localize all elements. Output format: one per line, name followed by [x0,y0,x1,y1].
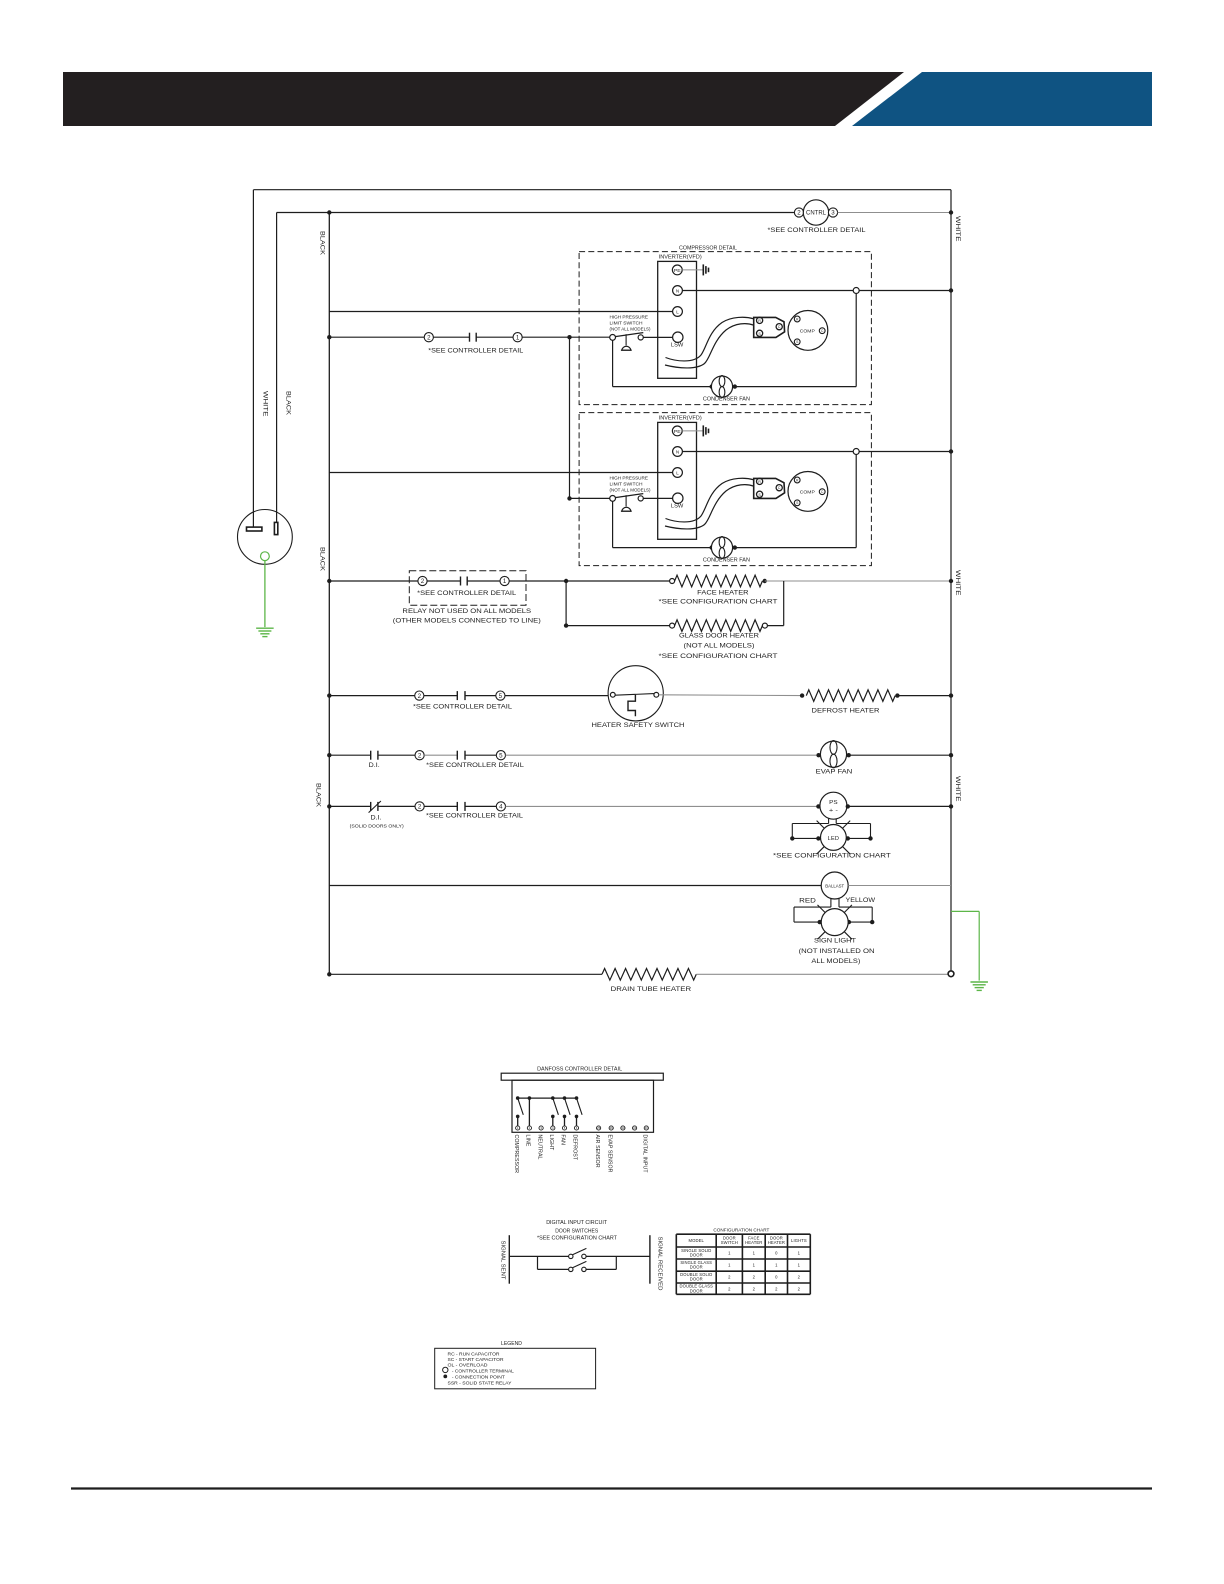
controller pin 2 [527,1126,531,1130]
compressor COMP [788,472,828,512]
svg-text:CONFIGURATION CHART: CONFIGURATION CHART [713,1228,769,1233]
svg-text:25: 25 [597,1126,601,1130]
branch down to door switch 2 [537,1256,539,1269]
wire switch to LSW [643,336,672,338]
controller contact (compressor relay) [469,333,471,342]
sign light rays [817,905,825,913]
pin stub [517,1116,519,1125]
legend box [435,1348,596,1389]
door switch 2 right contact [582,1267,586,1271]
svg-text:HEATER: HEATER [768,1240,785,1245]
PS output leads [828,818,830,823]
header black band [63,72,904,126]
wire [433,336,469,338]
svg-text:WHITE: WHITE [261,391,268,417]
svg-text:2: 2 [421,578,425,585]
wire PS to white bus [848,805,951,807]
svg-text:BLACK: BLACK [315,783,322,808]
wire to heater safety switch [505,695,610,697]
relay blade [518,1098,524,1115]
header blue band [852,72,1152,126]
junction riser to inverter 2 [567,335,571,339]
wire switch to condenser fan (down) [612,340,614,386]
door switch 1 right contact [582,1254,586,1258]
COMP terminal C [819,328,825,334]
junction white bus / defrost [949,693,953,697]
cable inverter to compressor plug (upper outline) [666,317,754,361]
svg-text:COMPRESSOR DETAIL: COMPRESSOR DETAIL [679,246,737,252]
COMP terminal S [794,500,800,506]
svg-text:DIGITAL INPUT: DIGITAL INPUT [642,1135,648,1174]
riser fan to N connection point [855,294,857,387]
svg-text:1: 1 [503,578,507,585]
connection point (N / fan) [853,288,859,294]
svg-text:LIGHT: LIGHT [548,1135,554,1152]
pin stub [552,1116,554,1125]
wire terminal 4 to power supply [506,805,819,807]
bus node [528,1096,532,1100]
wire to condenser fan [613,386,712,388]
svg-text:HIGH PRESSURE: HIGH PRESSURE [610,314,649,319]
svg-text:1: 1 [516,334,520,341]
chassis ground symbol [702,425,704,436]
junction condenser fan right [733,545,737,549]
controller terminal 2 (CNTRL) [794,208,803,217]
door switch 1 blade [573,1248,587,1254]
plug terminal R [757,317,763,323]
cable inverter to compressor plug (upper outline) [666,478,754,522]
resistor GLASS DOOR HEATER [675,620,763,632]
safety switch bimetal step [628,695,635,716]
svg-text:CONDENSER FAN: CONDENSER FAN [703,396,750,402]
LED harness rails [792,823,828,825]
wire black bus to ballast [329,885,821,887]
legend connection point symbol [443,1375,447,1379]
svg-text:*SEE CONFIGURATION CHART: *SEE CONFIGURATION CHART [659,599,778,605]
junction PS left [816,804,820,808]
earth ground (right) [970,981,988,983]
svg-text:5: 5 [499,752,503,759]
svg-text:L: L [676,310,679,315]
inverter terminal N [673,286,683,296]
svg-text:OL - OVERLOAD: OL - OVERLOAD [448,1362,488,1368]
svg-text:*SEE CONFIGURATION CHART: *SEE CONFIGURATION CHART [773,854,891,860]
earth ground (plug) [256,627,274,629]
condenser fan motor [711,376,732,397]
high pressure limit switch [610,496,616,502]
COMP terminal C [819,489,825,495]
wire terminal 1 to limit switch [522,336,610,338]
svg-text:- CONNECTION POINT: - CONNECTION POINT [452,1374,505,1380]
svg-text:CONDENSER FAN: CONDENSER FAN [703,557,750,563]
riser to second limit switch row [569,337,571,498]
wire rail to LED left [792,837,818,839]
svg-text:SWITCH: SWITCH [721,1240,738,1245]
svg-text:DI: DI [645,1126,648,1130]
svg-text:PE: PE [674,429,681,434]
wire bus to N.C. contact [329,805,370,807]
wire CNTRL to white bus [838,212,951,214]
svg-text:(OTHER MODELS CONNECTED TO LIN: (OTHER MODELS CONNECTED TO LINE) [393,619,541,625]
controller terminal 3 (CNTRL) [828,208,837,217]
svg-text:SIGNAL RECEIVED: SIGNAL RECEIVED [656,1237,662,1291]
svg-text:R: R [758,480,761,484]
svg-text:DOOR: DOOR [690,1253,703,1258]
relay terminal 2 [418,576,427,585]
relay blade [565,1098,571,1115]
contact D.I. solid doors (N.C.) [370,802,372,811]
plug terminal S [757,330,763,336]
svg-text:FACE HEATER: FACE HEATER [697,590,749,596]
junction black bus / defrost row [327,693,331,697]
wire [465,695,496,697]
svg-text:*SEE CONFIGURATION CHART: *SEE CONFIGURATION CHART [659,654,778,660]
inverter terminal PE [672,426,682,436]
junction black bus / contact row 1 [327,335,331,339]
svg-text:BALLAST: BALLAST [825,884,844,889]
bus node [551,1096,555,1100]
wire PE to chassis ground [682,430,702,432]
svg-text:(NOT INSTALLED ON: (NOT INSTALLED ON [799,949,875,955]
junction LED right lead [846,836,850,840]
limit switch pressure dome [622,346,631,350]
svg-text:LIMIT SWITCH: LIMIT SWITCH [610,481,643,486]
safety switch left contact [610,692,615,697]
svg-text:SIGNAL SENT: SIGNAL SENT [500,1241,506,1280]
svg-text:BLACK: BLACK [319,231,326,256]
svg-text:DOOR: DOOR [690,1265,703,1270]
controller pin 4 [551,1126,555,1130]
wire [378,805,415,807]
controller terminal 4 (light) [496,802,505,811]
svg-text:ALL MODELS): ALL MODELS) [811,959,860,965]
svg-text:2: 2 [418,804,422,811]
svg-text:*SEE CONTROLLER DETAIL: *SEE CONTROLLER DETAIL [428,348,524,354]
pin stub [564,1116,566,1125]
svg-text:*SEE CONTROLLER DETAIL: *SEE CONTROLLER DETAIL [426,763,525,769]
signal received bar [649,1235,651,1284]
white neutral bus (right) [950,190,952,974]
wire condenser fan to riser [735,547,856,549]
svg-text:HEATER SAFETY SWITCH: HEATER SAFETY SWITCH [592,723,685,729]
controller terminal 2 (compressor) [424,333,433,342]
wire terminal 5 to evap fan [506,754,817,756]
sign light lamp [821,909,848,936]
high pressure limit switch [610,335,616,341]
controller pin 5 [562,1126,566,1130]
N.C. contact slash [369,801,381,813]
svg-text:SIGN LIGHT: SIGN LIGHT [814,939,856,945]
svg-text:SC - START CAPACITOR: SC - START CAPACITOR [448,1357,504,1363]
controller terminal 1 (compressor) [513,333,522,342]
svg-text:WHITE: WHITE [954,776,961,802]
svg-text:DANFOSS CONTROLLER DETAIL: DANFOSS CONTROLLER DETAIL [537,1066,622,1072]
compressor detail dashed box 1 [579,252,871,405]
junction white bus / PS [949,804,953,808]
wire face heater to white bus [765,580,951,582]
svg-text:DIGITAL INPUT CIRCUIT: DIGITAL INPUT CIRCUIT [546,1220,608,1226]
svg-text:DOOR: DOOR [690,1277,703,1282]
svg-text:LSW: LSW [671,343,684,349]
svg-text:DOOR SWITCHES: DOOR SWITCHES [555,1229,598,1235]
wire rail to sign light left [794,921,820,923]
junction black bus end / drain row [327,972,331,976]
svg-text:INVERTER(VFD): INVERTER(VFD) [659,255,702,261]
junction white bus / evap fan [949,753,953,757]
svg-text:LED: LED [828,836,839,842]
wire (gray) [424,754,457,756]
configuration chart table [676,1233,810,1235]
svg-text:*SEE CONTROLLER DETAIL: *SEE CONTROLLER DETAIL [426,814,524,820]
relay blade [577,1098,583,1115]
limit switch pressure dome [622,507,631,511]
wire to face heater [566,580,670,582]
junction riser / switch row 2 [567,496,571,500]
green bonding wire (horizontal) [951,910,979,912]
junction condenser fan right [733,384,737,388]
wire [427,580,460,582]
wire N to connection point [682,290,853,292]
svg-text:GLASS DOOR HEATER: GLASS DOOR HEATER [679,633,760,639]
inverter terminal N [673,447,683,457]
line feed to pin 2 [528,1098,530,1126]
resistor DRAIN TUBE HEATER [602,969,696,981]
svg-text:BLACK: BLACK [319,547,326,572]
wire to door switch 1 [509,1255,568,1257]
svg-text:3: 3 [831,210,835,217]
ballast [821,872,848,899]
controller body [512,1080,654,1132]
signal sent bar [508,1235,510,1284]
black wire riser from plug [276,213,278,523]
svg-text:COMPRESSOR: COMPRESSOR [513,1135,519,1174]
pin stub [576,1116,578,1125]
svg-text:CNTRL: CNTRL [806,210,827,217]
bus node [575,1096,579,1100]
controller pin 1 [516,1126,520,1130]
svg-text:*SEE CONTROLLER DETAIL: *SEE CONTROLLER DETAIL [417,591,517,597]
cable inverter to compressor plug (lower outline) [665,324,754,368]
bus node [563,1096,567,1100]
plug ground pin [261,552,270,561]
riser to glass door heater [565,581,567,626]
junction sign light left lead [818,920,822,924]
svg-text:AIR SENSOR: AIR SENSOR [594,1135,600,1168]
safety switch right contact [654,692,659,697]
svg-text:(NOT ALL MODELS): (NOT ALL MODELS) [684,643,755,649]
wire bus to drain tube heater [329,973,602,975]
svg-text:MODEL: MODEL [689,1238,705,1243]
power supply PS [820,792,847,819]
junction: white bus / CNTRL [949,210,953,214]
COMP terminal R [794,477,800,483]
wire [424,805,457,807]
riser glass heater to face heater wire [783,581,785,626]
plug terminal C [776,324,782,330]
wall plug P1 [238,510,293,565]
inverter box [658,261,697,378]
relay blade [553,1098,559,1115]
door switch 2 left contact [569,1267,573,1271]
wire relay to heater node [509,580,566,582]
wire bus to D.I. contact [329,754,370,756]
inverter terminal L [673,468,683,478]
svg-text:N: N [676,450,679,455]
svg-text:D.I.: D.I. [369,763,380,769]
svg-text:LIGHTS: LIGHTS [791,1238,807,1243]
controller internal supply bus [518,1097,577,1099]
wire bus to relay terminal 2 [329,580,418,582]
svg-text:5: 5 [499,693,503,700]
svg-text:LINE: LINE [525,1135,531,1147]
ballast output leads [830,898,832,907]
controller pin 34 [633,1126,637,1130]
junction black bus / evap row [327,753,331,757]
svg-text:N: N [676,289,679,294]
svg-text:DRAIN TUBE HEATER: DRAIN TUBE HEATER [611,987,692,993]
svg-text:(SOLID DOORS ONLY): (SOLID DOORS ONLY) [350,824,405,829]
wire to glass door heater [566,625,670,627]
svg-text:NEUTRAL: NEUTRAL [536,1135,542,1160]
wire door switch 2 right [586,1268,616,1270]
wire N to connection point [682,451,853,453]
wire black bus to inverter-2 L [329,472,672,474]
svg-text:- CONTROLLER TERMINAL: - CONTROLLER TERMINAL [452,1369,514,1375]
wire [424,695,457,697]
wire [465,805,496,807]
compressor detail dashed box 2 [579,413,871,566]
svg-text:2: 2 [418,752,422,759]
svg-text:4: 4 [499,804,503,811]
door switch 1 left contact [569,1254,573,1258]
white wire riser from plug [252,190,254,528]
svg-text:PE: PE [674,268,681,273]
svg-text:WHITE: WHITE [954,570,961,596]
footer rule [71,1487,1152,1489]
svg-text:(NOT ALL MODELS): (NOT ALL MODELS) [610,487,651,492]
junction PS right [846,804,850,808]
wire [378,754,415,756]
controller CNTRL [803,200,828,225]
junction LED left rail [790,836,794,840]
controller pin 6 [574,1126,578,1130]
wire black bus to inverter-1 L [329,311,672,313]
controller contact (defrost) [456,691,458,700]
connection point (N / fan) [853,449,859,455]
safety switch blade [615,694,654,696]
inverter terminal PE [672,265,682,275]
compressor COMP [788,311,828,351]
green ground wire [264,561,266,627]
junction face/glass heater split [564,579,568,583]
svg-text:*SEE CONFIGURATION CHART: *SEE CONFIGURATION CHART [537,1235,618,1241]
white wire top run [253,189,951,191]
svg-text:FAN: FAN [560,1135,566,1146]
bus node [516,1096,520,1100]
connection point white bus end [948,971,954,977]
inverter box [658,422,697,539]
controller terminal 2 (light) [415,802,424,811]
door switch 2 blade [573,1261,587,1267]
svg-text:COMP: COMP [800,489,815,495]
svg-text:C: C [778,325,781,329]
branch up from door switch 2 [615,1256,617,1269]
svg-text:LSW: LSW [671,504,684,510]
sign light harness rails [794,906,831,908]
junction glass heater left [564,623,568,627]
svg-text:2: 2 [427,334,431,341]
wire bus to terminal 2 [329,695,414,697]
svg-text:PS: PS [829,800,838,806]
svg-text:YELLOW: YELLOW [846,897,877,904]
controller pin 25 [597,1126,601,1130]
junction white bus / face heater [949,579,953,583]
COMP terminal R [794,316,800,322]
cable inverter to compressor plug (lower outline) [665,485,754,529]
relay contact [460,577,462,586]
heater safety switch [608,666,663,721]
plug neutral prong [247,527,262,531]
junction sign light right lead [847,920,851,924]
junction evap fan left [816,753,820,757]
svg-text:EVAP FAN: EVAP FAN [816,769,853,775]
COMP terminal S [794,339,800,345]
controller contact (evap fan) [456,751,458,760]
svg-text:COMP: COMP [800,328,815,334]
junction white bus / N wire [949,449,953,453]
glass heater right terminal [762,623,767,628]
svg-text:LEGEND: LEGEND [501,1341,522,1347]
svg-text:D.I.: D.I. [371,815,382,821]
svg-text:C: C [778,486,781,490]
wire ballast to white bus [848,885,951,887]
wire door switch 1 to received [586,1255,650,1257]
wire drain heater to white bus [696,973,948,975]
wire switch to condenser fan (down) [612,501,614,547]
wire [467,580,500,582]
svg-text:HEATER: HEATER [745,1240,762,1245]
evap fan motor [820,741,846,767]
wire sign light right to rail [849,921,872,923]
controller pin DI [644,1126,648,1130]
wire to door switch 2 [538,1268,569,1270]
svg-text:34: 34 [633,1126,637,1130]
compressor plug connector [754,478,785,498]
junction black bus / light row [327,804,331,808]
compressor plug connector [754,317,785,337]
controller pin 26 [609,1126,613,1130]
wire [476,336,513,338]
svg-text:RELAY NOT USED ON ALL MODELS: RELAY NOT USED ON ALL MODELS [402,609,531,615]
wire switch to LSW [643,497,672,499]
junction defrost heater right [895,693,899,697]
resistor DEFROST HEATER [806,690,895,702]
wire safety switch to defrost heater [659,694,802,697]
wire condenser fan to riser [735,386,856,388]
riser fan to N connection point [855,455,857,548]
svg-text:2: 2 [418,693,422,700]
inverter terminal L [673,307,683,317]
plug terminal S [757,491,763,497]
LED lamp [821,825,847,851]
junction condenser fan left [710,545,714,549]
junction face heater right [763,579,767,583]
controller terminal 2 (evap) [415,751,424,760]
svg-text:*SEE CONTROLLER DETAIL: *SEE CONTROLLER DETAIL [413,705,513,711]
relay dash-dot box [409,571,526,606]
wire [465,754,496,756]
limit switch actuator stem [625,495,627,506]
